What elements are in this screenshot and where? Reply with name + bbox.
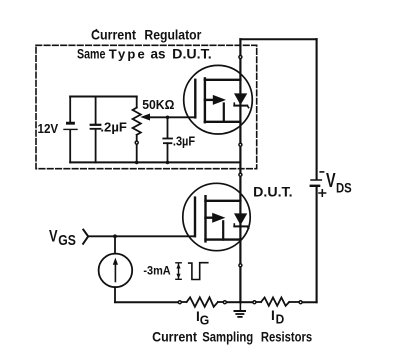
DUT drain stub (206, 200, 241, 202)
wire bottom right (301, 301, 317, 303)
node circle drain above rail (239, 143, 242, 146)
svg-text:12V: 12V (38, 121, 59, 136)
svg-text:Resistors: Resistors (261, 329, 312, 344)
node circle drain below rail (239, 173, 242, 176)
DUT source stub (206, 238, 241, 240)
node circle ID left (253, 301, 256, 304)
svg-text:-3mA: -3mA (143, 265, 170, 277)
junction dot cap bottom rail (166, 161, 170, 165)
junction dot pot bottom rail (135, 161, 139, 165)
wire top rail (240, 38, 316, 40)
svg-text:.3µF: .3µF (173, 135, 196, 149)
VDS plus sign (319, 190, 326, 196)
node circle DUT source (239, 264, 242, 267)
resistor IG (182, 297, 223, 307)
ground (235, 302, 246, 317)
svg-text:Type: Type (109, 47, 147, 62)
junction dot VGS/current source (113, 234, 117, 238)
svg-text:D: D (276, 312, 285, 326)
svg-text:D.U.T.: D.U.T. (253, 185, 292, 200)
DUT body line with arrow (206, 216, 214, 218)
scan tick above C (95, 29, 97, 31)
wire VGS to gate (88, 235, 195, 237)
node circle IG right (223, 301, 226, 304)
svg-text:Same: Same (77, 47, 106, 62)
wire right vertical lower (316, 186, 318, 302)
svg-text:V: V (49, 228, 58, 246)
svg-text:Sampling: Sampling (202, 329, 253, 344)
svg-text:Current: Current (91, 28, 136, 43)
Q1 body diode (234, 93, 247, 105)
node circle drain top (239, 56, 242, 59)
Q1 channel line (204, 78, 206, 122)
svg-text:Current: Current (152, 329, 197, 344)
svg-text:.2µF: .2µF (100, 119, 127, 134)
DUT circle (183, 183, 250, 250)
wire IG to ground junction (227, 301, 241, 303)
battery VDS (310, 180, 323, 186)
svg-text:V: V (326, 169, 336, 192)
VGS input chevron (83, 230, 88, 244)
MOSFET Q1 current regulator (184, 65, 253, 134)
capacitor C1 .2uF (90, 97, 102, 163)
dashed box current regulator (36, 45, 257, 168)
svg-text:Regulator: Regulator (144, 28, 202, 43)
svg-text:G: G (200, 314, 210, 328)
node circle ID right (299, 301, 302, 304)
wire main vertical drain line (239, 39, 241, 302)
potentiometer wiper arrow (140, 114, 150, 121)
svg-text:50KΩ: 50KΩ (142, 98, 174, 112)
battery 12V (63, 97, 77, 163)
capacitor C2 .3uF (162, 117, 173, 162)
Q1 source stub (205, 121, 241, 123)
DUT gate plate (194, 198, 196, 237)
wire regulator bottom rail (70, 161, 240, 163)
Q1 drain stub (205, 79, 241, 81)
Q1 body line with arrow (205, 99, 214, 101)
pulse waveform (189, 263, 208, 280)
svg-text:D.U.T.: D.U.T. (172, 47, 212, 62)
DUT channel line (204, 196, 206, 241)
svg-text:as: as (151, 47, 166, 62)
Q1 gate plate (194, 80, 196, 118)
MOSFET D.U.T. (183, 183, 250, 250)
wire wiper to gate (149, 116, 196, 118)
svg-text:I: I (271, 308, 275, 323)
junction dot wiper/cap (166, 116, 170, 120)
VDS minus sign (320, 171, 323, 173)
current source 3mA (99, 236, 133, 302)
node circle pot bottom (135, 141, 138, 144)
DUT body diode (234, 213, 247, 225)
wire regulator top rail (70, 96, 137, 98)
svg-text:DS: DS (336, 179, 352, 195)
wire right vertical upper (316, 39, 318, 179)
Q1 circle (184, 65, 253, 134)
wire ground junction to ID (240, 301, 252, 303)
svg-text:GS: GS (58, 232, 76, 248)
potentiometer 50K (133, 97, 141, 163)
resistor ID (256, 298, 299, 306)
node circle IG left (178, 301, 181, 304)
wire bottom left (115, 301, 178, 303)
amplitude marker arrows (176, 263, 181, 280)
